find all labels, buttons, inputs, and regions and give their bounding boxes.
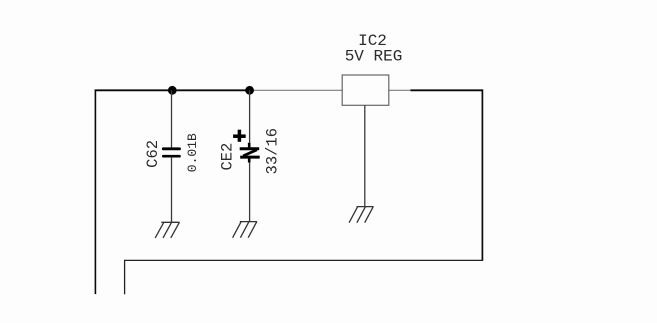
ground for C62 — [155, 222, 179, 238]
wire: top rail left segment — [95, 89, 250, 91]
wire: left vertical drop — [94, 90, 96, 295]
wire: C62 upper leg — [171, 90, 173, 147]
capacitor CE2 polarized plates (Z symbol) — [240, 143, 260, 163]
wire: CE2 upper leg — [249, 90, 251, 148]
ground for CE2 — [233, 222, 257, 238]
wire: bottom-left vertical stub — [124, 260, 126, 295]
wire: IC2 output stub (gray) — [389, 89, 412, 91]
svg-text:33/16: 33/16 — [264, 128, 282, 175]
capacitor C62 top plate — [163, 147, 179, 150]
svg-text:5V REG: 5V REG — [345, 47, 403, 65]
svg-text:0.01B: 0.01B — [185, 133, 200, 172]
capacitor C62 bottom plate — [163, 155, 179, 158]
node A: junction dot over C62 — [168, 86, 177, 95]
wire: CE2 lower leg — [249, 162, 251, 222]
wire: rail from node B to IC2 input (gray) — [250, 89, 343, 91]
svg-text:C62: C62 — [144, 140, 162, 168]
voltage regulator IC2 body — [342, 75, 389, 105]
svg-text:CE2: CE2 — [218, 143, 236, 171]
wire: IC2 ground leg — [364, 105, 366, 206]
wire: top rail right segment — [411, 89, 483, 91]
wire: C62 lower leg — [171, 157, 173, 222]
node B: junction dot over CE2 — [245, 86, 254, 95]
ground for IC2 — [349, 207, 373, 223]
capacitor CE2 plus polarity mark — [233, 130, 246, 142]
wire: right vertical drop — [481, 89, 483, 260]
wire: bottom horizontal return — [125, 259, 484, 261]
